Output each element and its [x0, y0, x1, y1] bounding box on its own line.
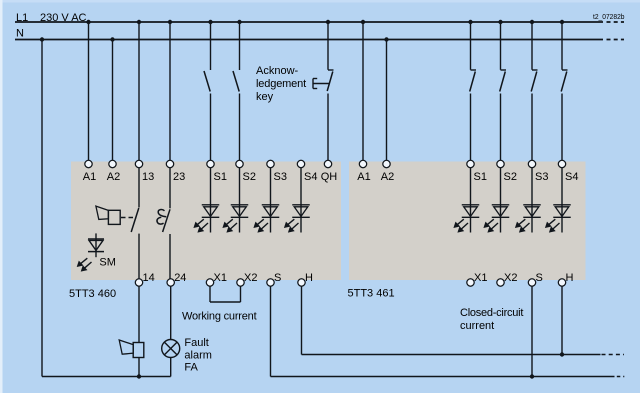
svg-text:QH: QH	[321, 171, 338, 183]
svg-text:S1: S1	[474, 171, 487, 183]
svg-text:23: 23	[173, 171, 185, 183]
svg-text:t2_07282b: t2_07282b	[593, 12, 625, 21]
svg-text:Closed-circuit: Closed-circuit	[460, 307, 523, 319]
svg-text:5TT3 460: 5TT3 460	[69, 288, 116, 300]
svg-text:SM: SM	[99, 257, 116, 269]
svg-text:14: 14	[143, 272, 155, 284]
svg-text:X1: X1	[474, 272, 487, 284]
svg-text:N: N	[16, 28, 24, 40]
svg-text:S: S	[274, 272, 281, 284]
svg-text:Acknow-: Acknow-	[256, 65, 299, 77]
svg-text:S3: S3	[274, 171, 287, 183]
svg-text:S: S	[536, 272, 543, 284]
svg-text:24: 24	[174, 272, 186, 284]
svg-text:230 V AC: 230 V AC	[40, 12, 87, 24]
svg-text:A2: A2	[381, 171, 394, 183]
svg-text:H: H	[566, 272, 574, 284]
svg-text:5TT3 461: 5TT3 461	[348, 288, 395, 300]
svg-text:Fault: Fault	[184, 337, 208, 349]
svg-text:A2: A2	[107, 171, 120, 183]
svg-text:S2: S2	[243, 171, 256, 183]
svg-text:FA: FA	[184, 362, 198, 374]
svg-text:13: 13	[142, 171, 154, 183]
svg-text:S1: S1	[214, 171, 227, 183]
svg-text:X1: X1	[214, 272, 227, 284]
svg-text:A1: A1	[83, 171, 96, 183]
svg-text:S2: S2	[504, 171, 517, 183]
svg-text:current: current	[460, 320, 494, 332]
svg-text:H: H	[305, 272, 313, 284]
svg-text:X2: X2	[504, 272, 517, 284]
svg-text:X2: X2	[244, 272, 257, 284]
svg-text:S4: S4	[565, 171, 578, 183]
svg-text:A1: A1	[357, 171, 370, 183]
svg-text:ledgement: ledgement	[256, 78, 306, 90]
svg-text:S3: S3	[535, 171, 548, 183]
svg-text:alarm: alarm	[184, 349, 212, 361]
svg-text:S4: S4	[304, 171, 317, 183]
svg-text:L1: L1	[16, 12, 28, 24]
svg-text:key: key	[256, 91, 274, 103]
svg-text:Working current: Working current	[182, 311, 257, 323]
